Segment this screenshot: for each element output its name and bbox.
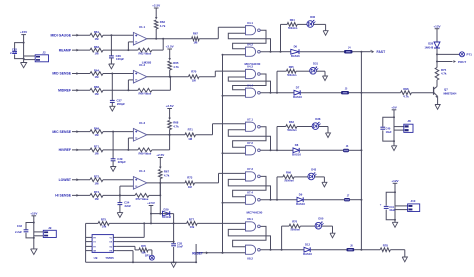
svg-text:R77: R77 (189, 217, 195, 221)
svg-text:22nF: 22nF (125, 204, 132, 208)
svg-text:MID SENSE: MID SENSE (52, 72, 71, 76)
svg-text:PT1: PT1 (467, 53, 473, 57)
svg-text:R66: R66 (94, 85, 100, 89)
svg-text:MIC SENSE: MIC SENSE (52, 130, 71, 134)
svg-text:2.2uF: 2.2uF (15, 230, 22, 234)
svg-text:1M: 1M (95, 37, 100, 41)
svg-text:+: + (380, 203, 382, 207)
svg-text:D12: D12 (305, 243, 310, 247)
svg-text:FAST: FAST (377, 50, 387, 54)
svg-text:U4.2: U4.2 (247, 42, 253, 46)
svg-text:500ohm: 500ohm (284, 180, 294, 183)
svg-text:R76: R76 (141, 244, 146, 248)
svg-text:4.7k: 4.7k (160, 24, 166, 28)
svg-text:U1.1: U1.1 (139, 25, 146, 29)
svg-text:1M: 1M (95, 92, 100, 96)
svg-text:MC74HC00: MC74HC00 (244, 62, 260, 66)
svg-text:R66: R66 (286, 171, 291, 175)
svg-text:1M: 1M (95, 52, 100, 56)
svg-text:R78: R78 (383, 244, 389, 248)
svg-text:U1.3: U1.3 (139, 121, 146, 125)
svg-text:J9: J9 (48, 226, 52, 230)
svg-text:R63: R63 (289, 120, 294, 124)
svg-text:D38: D38 (315, 117, 320, 121)
svg-text:MMBT3904: MMBT3904 (444, 92, 458, 95)
svg-text:10nF: 10nF (177, 245, 183, 249)
svg-text:10k: 10k (102, 224, 107, 228)
svg-text:POUT: POUT (458, 60, 466, 64)
svg-text:+12V: +12V (391, 179, 399, 183)
svg-text:1M: 1M (188, 185, 193, 189)
svg-text:4.7k: 4.7k (173, 124, 179, 128)
svg-text:D29: D29 (164, 207, 169, 211)
svg-text:U1.4: U1.4 (139, 169, 146, 173)
svg-text:R67: R67 (193, 32, 199, 36)
svg-text:U8.2: U8.2 (247, 257, 253, 261)
svg-text:1M: 1M (95, 181, 100, 185)
svg-text:500ohm: 500ohm (287, 74, 297, 77)
svg-text:1M: 1M (95, 197, 100, 201)
svg-text:D8: D8 (295, 143, 299, 147)
svg-text:BAS16: BAS16 (291, 54, 300, 58)
svg-text:4.7k: 4.7k (403, 95, 409, 99)
svg-text:U7.2: U7.2 (247, 141, 253, 145)
svg-text:MIDREF: MIDREF (58, 89, 71, 93)
svg-text:J8: J8 (407, 119, 411, 123)
svg-text:R71: R71 (94, 145, 100, 149)
svg-text:R64: R64 (290, 18, 295, 22)
svg-text:HI SENSE: HI SENSE (55, 194, 72, 198)
svg-text:1M: 1M (193, 41, 198, 45)
svg-text:200pF: 200pF (117, 102, 125, 106)
svg-text:REAMP: REAMP (59, 48, 72, 52)
svg-text:1M: 1M (188, 137, 193, 141)
svg-text:+2.5V: +2.5V (147, 201, 155, 205)
svg-text:1N4148: 1N4148 (162, 216, 171, 219)
svg-text:SP1: SP1 (145, 253, 150, 257)
svg-text:J2: J2 (42, 51, 46, 55)
svg-text:+15V: +15V (30, 211, 38, 215)
svg-text:TS555: TS555 (105, 256, 114, 260)
svg-text:+2.5V: +2.5V (156, 153, 165, 157)
svg-text:R73: R73 (187, 176, 193, 180)
svg-text:R69 Value: R69 Value (139, 151, 152, 155)
svg-text:4.7k: 4.7k (173, 65, 179, 69)
svg-text:4.7k: 4.7k (441, 72, 447, 76)
svg-text:U8.1: U8.1 (247, 217, 253, 221)
svg-text:2.2uF: 2.2uF (10, 51, 17, 55)
svg-text:MIDI GAUGE: MIDI GAUGE (51, 33, 72, 37)
svg-text:R64: R64 (94, 68, 100, 72)
svg-text:R70: R70 (191, 70, 197, 74)
svg-text:R65: R65 (289, 65, 294, 69)
svg-text:LM393: LM393 (142, 61, 152, 65)
svg-text:10uF: 10uF (386, 130, 392, 134)
svg-text:U7.3: U7.3 (247, 167, 253, 171)
svg-text:U4.4: U4.4 (247, 83, 253, 87)
svg-text:1M: 1M (95, 133, 100, 137)
svg-text:R71: R71 (188, 128, 194, 132)
svg-text:RESET: RESET (192, 252, 203, 256)
svg-text:U9: U9 (94, 256, 98, 260)
svg-text:+12V: +12V (433, 24, 441, 28)
svg-text:500ohm: 500ohm (287, 129, 297, 132)
svg-text:1N4148: 1N4148 (425, 46, 434, 49)
svg-text:LOWBT: LOWBT (59, 178, 72, 182)
svg-text:BAS16: BAS16 (292, 153, 301, 157)
svg-text:R72: R72 (94, 175, 100, 179)
svg-text:+5V: +5V (391, 105, 397, 109)
svg-text:U7.1: U7.1 (247, 117, 253, 121)
svg-text:U4.1: U4.1 (247, 21, 253, 25)
svg-text:R75: R75 (101, 217, 107, 221)
svg-text:U7.4: U7.4 (247, 190, 253, 194)
svg-text:R66 Value: R66 Value (139, 92, 152, 96)
svg-text:C43: C43 (17, 224, 23, 228)
svg-text:HIVREF: HIVREF (59, 148, 71, 152)
svg-text:+2.5V: +2.5V (166, 104, 175, 108)
svg-text:500ohm: 500ohm (291, 229, 301, 232)
svg-text:R74: R74 (94, 190, 100, 194)
svg-text:Q7: Q7 (444, 88, 448, 92)
svg-text:+2.5V: +2.5V (152, 4, 161, 8)
svg-text:BAS16: BAS16 (293, 95, 302, 99)
svg-text:D28: D28 (428, 42, 433, 46)
svg-text:D43: D43 (311, 167, 316, 171)
svg-text:R70: R70 (292, 220, 297, 224)
svg-text:R69: R69 (94, 126, 100, 130)
svg-text:D9: D9 (299, 193, 303, 197)
svg-text:D30: D30 (310, 15, 315, 19)
svg-text:10k: 10k (190, 225, 195, 229)
svg-text:1M: 1M (192, 79, 197, 83)
svg-text:J10: J10 (411, 199, 416, 203)
svg-text:R62: R62 (94, 45, 100, 49)
svg-text:MC74HC00: MC74HC00 (246, 211, 262, 215)
svg-text:100pF: 100pF (116, 57, 124, 61)
svg-text:4.7k: 4.7k (164, 173, 170, 177)
svg-text:10uF: 10uF (389, 208, 395, 212)
svg-text:BAS16: BAS16 (296, 202, 305, 206)
svg-text:500ohm: 500ohm (288, 27, 298, 30)
svg-text:+15V: +15V (20, 30, 28, 34)
svg-text:220pF: 220pF (118, 160, 126, 164)
svg-text:C42: C42 (12, 47, 18, 51)
svg-text:D50: D50 (318, 217, 323, 221)
svg-text:D6: D6 (294, 45, 298, 49)
svg-text:+2.5V: +2.5V (166, 45, 175, 49)
svg-text:R62 Value: R62 Value (139, 52, 152, 56)
svg-text:1M: 1M (95, 152, 100, 156)
svg-text:R96: R96 (403, 87, 409, 91)
svg-text:BAS16: BAS16 (303, 252, 312, 256)
svg-text:1M: 1M (95, 75, 100, 79)
svg-text:D31: D31 (313, 62, 318, 66)
svg-text:D7: D7 (296, 86, 300, 90)
svg-text:R61: R61 (94, 30, 100, 34)
